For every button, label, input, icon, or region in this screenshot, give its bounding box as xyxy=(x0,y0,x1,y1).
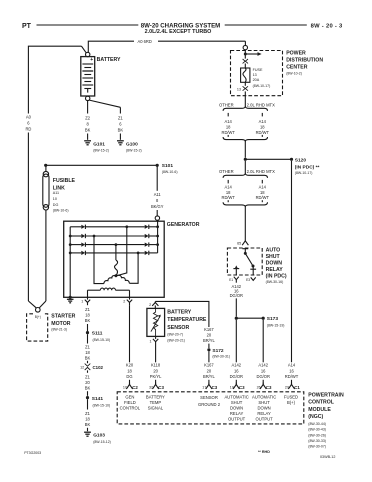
svg-text:17: 17 xyxy=(202,386,206,390)
split 2 OTHER / 2.0L RHD MTX xyxy=(219,161,275,238)
svg-text:(8W-10-2): (8W-10-2) xyxy=(286,71,302,75)
svg-text:GENERATOR: GENERATOR xyxy=(167,222,200,228)
PCM pin 17 C3 xyxy=(202,383,217,390)
svg-text:S141: S141 xyxy=(92,396,104,402)
svg-text:BR/YL: BR/YL xyxy=(203,338,216,343)
svg-text:A14: A14 xyxy=(225,119,233,124)
footnotes xyxy=(24,450,335,459)
svg-text:OTHER: OTHER xyxy=(219,169,234,174)
svg-text:16: 16 xyxy=(289,368,294,373)
splice S111 xyxy=(86,331,110,342)
wire A0 left: battery to starter xyxy=(25,46,86,301)
svg-text:SENSOR: SENSOR xyxy=(200,395,218,400)
svg-text:RELAY: RELAY xyxy=(257,411,271,416)
svg-text:8W - 20 - 3: 8W - 20 - 3 xyxy=(311,23,343,29)
relay pin E3 xyxy=(246,277,256,282)
wire Z1 gen pin1 to S111 xyxy=(85,307,91,331)
wire K20 gen pin2 to PCM xyxy=(126,305,134,384)
svg-text:BATTERY: BATTERY xyxy=(167,309,191,315)
PDC terminal xyxy=(243,45,247,49)
svg-text:C1: C1 xyxy=(294,385,300,390)
svg-text:STARTER: STARTER xyxy=(51,313,75,319)
wire A11 S101 to generator xyxy=(151,167,164,216)
svg-text:(NGC): (NGC) xyxy=(308,414,323,420)
generator stator windings xyxy=(93,225,140,283)
wire A142 S173 left branch to PCM xyxy=(230,320,243,384)
svg-text:PT: PT xyxy=(22,23,32,30)
wire sensor pin2 to K167 xyxy=(155,301,209,327)
splice S101 xyxy=(44,163,177,174)
split 1 OTHER / 2.0L RHD MTX xyxy=(219,96,275,158)
svg-text:+: + xyxy=(90,57,93,63)
svg-text:(8W-10-17): (8W-10-17) xyxy=(253,84,271,88)
svg-text:(8W-30-44): (8W-30-44) xyxy=(308,422,326,426)
PDC feed node and arrow xyxy=(244,50,262,59)
svg-text:BATTERY: BATTERY xyxy=(146,395,165,400)
svg-text:03WB-12: 03WB-12 xyxy=(320,455,335,459)
svg-text:MODULE: MODULE xyxy=(308,407,331,413)
svg-text:SHUT: SHUT xyxy=(266,254,281,260)
svg-text:13: 13 xyxy=(253,73,257,77)
wire Z2 battery to G101 xyxy=(85,101,91,140)
svg-text:BR/YL: BR/YL xyxy=(203,374,216,379)
svg-text:E1: E1 xyxy=(229,278,233,282)
svg-text:18: 18 xyxy=(85,417,90,422)
svg-text:16: 16 xyxy=(261,368,266,373)
svg-text:18: 18 xyxy=(226,125,231,130)
svg-text:BK: BK xyxy=(85,318,91,323)
generator case ground xyxy=(67,299,74,303)
svg-text:CENTER: CENTER xyxy=(286,65,308,71)
generator pin 1 xyxy=(81,297,90,305)
ground G103 xyxy=(84,432,111,444)
ASD relay connector pin 65 xyxy=(237,238,248,246)
svg-text:19: 19 xyxy=(230,386,234,390)
svg-text:FUSIBLE: FUSIBLE xyxy=(53,178,76,184)
wire Z1 S111 to C102 xyxy=(85,334,91,363)
svg-text:PK/YL: PK/YL xyxy=(150,374,162,379)
svg-text:SHUT: SHUT xyxy=(231,400,243,405)
header xyxy=(22,22,343,35)
svg-text:A0: A0 xyxy=(26,115,32,120)
svg-text:DG: DG xyxy=(126,374,132,379)
generator G xyxy=(64,216,200,297)
svg-text:Z1: Z1 xyxy=(118,116,124,121)
svg-text:(8W-21-3): (8W-21-3) xyxy=(51,328,67,332)
svg-text:20: 20 xyxy=(153,368,158,373)
svg-text:K167: K167 xyxy=(204,363,214,368)
svg-text:AUTOMATIC: AUTOMATIC xyxy=(252,395,276,400)
diodes D7 D8 row 4 xyxy=(70,252,81,254)
svg-text:C3: C3 xyxy=(212,385,218,390)
svg-text:BK: BK xyxy=(118,128,124,133)
svg-text:SENSOR: SENSOR xyxy=(167,325,189,331)
svg-text:TEMPERATURE: TEMPERATURE xyxy=(167,317,207,323)
svg-text:(8W-15-10): (8W-15-10) xyxy=(93,404,111,408)
svg-text:TEMP: TEMP xyxy=(150,400,162,405)
PCM pin 26 C3 xyxy=(257,383,272,390)
svg-text:RD/WT: RD/WT xyxy=(221,130,235,135)
svg-text:A142: A142 xyxy=(232,363,242,368)
starter motor box xyxy=(27,313,76,341)
svg-text:SIGNAL: SIGNAL xyxy=(148,406,164,411)
svg-text:K118: K118 xyxy=(151,363,161,368)
wire Z1 battery to G100 xyxy=(89,100,123,140)
powertrain control module box xyxy=(117,392,304,424)
sensor pin 1 xyxy=(149,336,158,344)
svg-text:Z1: Z1 xyxy=(85,307,91,312)
svg-text:DOWN: DOWN xyxy=(257,406,270,411)
svg-text:S111: S111 xyxy=(92,331,103,337)
svg-text:18: 18 xyxy=(260,190,265,195)
svg-text:18: 18 xyxy=(127,368,132,373)
svg-text:** RHD: ** RHD xyxy=(258,450,270,454)
svg-text:A0 6RD: A0 6RD xyxy=(138,39,152,44)
svg-text:(8W-30-07): (8W-30-07) xyxy=(308,445,326,449)
svg-text:10: 10 xyxy=(123,386,127,390)
svg-text:(IN PDC) **: (IN PDC) ** xyxy=(295,164,320,170)
svg-text:2.0L RHD MTX: 2.0L RHD MTX xyxy=(247,103,275,108)
fuse 13 connector top xyxy=(243,59,248,68)
svg-text:DISTRIBUTION: DISTRIBUTION xyxy=(286,58,323,64)
svg-text:CONTROL: CONTROL xyxy=(120,406,141,411)
svg-text:S101: S101 xyxy=(162,163,174,169)
generator field winding xyxy=(88,288,130,297)
svg-text:B(+): B(+) xyxy=(287,400,296,405)
svg-text:18: 18 xyxy=(85,350,90,355)
svg-text:(8W-30-16): (8W-30-16) xyxy=(266,280,284,284)
fuse F13 20A xyxy=(241,68,271,88)
PCM pin 32 C3 xyxy=(149,383,164,390)
svg-text:(8W-10-6): (8W-10-6) xyxy=(53,209,69,213)
svg-text:(8W-30-43): (8W-30-43) xyxy=(308,428,326,432)
svg-text:K20: K20 xyxy=(126,363,134,368)
battery B1 xyxy=(81,52,121,100)
diodes D1 D2 row 1 xyxy=(70,226,81,228)
svg-text:K167: K167 xyxy=(204,327,214,332)
wire A0 top: battery to PDC xyxy=(88,39,245,52)
ground G100 xyxy=(117,141,142,153)
svg-text:FUSED: FUSED xyxy=(284,395,298,400)
fuse 13 connector bottom, pin 13 xyxy=(237,82,248,95)
svg-text:(8W-15-12): (8W-15-12) xyxy=(93,440,111,444)
svg-text:12: 12 xyxy=(80,366,84,370)
svg-text:POWER: POWER xyxy=(286,51,306,57)
svg-text:RD: RD xyxy=(25,127,31,132)
svg-text:20A: 20A xyxy=(253,78,260,82)
wire K118 sensor to PCM xyxy=(150,345,162,384)
wire K167 labels upper xyxy=(203,327,216,348)
svg-text:A11: A11 xyxy=(154,192,162,197)
svg-text:18: 18 xyxy=(226,190,231,195)
svg-text:1: 1 xyxy=(149,339,151,343)
svg-text:BK: BK xyxy=(85,422,91,427)
svg-text:A14: A14 xyxy=(288,363,296,368)
svg-text:2.0L RHD MTX: 2.0L RHD MTX xyxy=(247,169,275,174)
PCM pin 29 C1 xyxy=(285,383,300,390)
relay pin E1 xyxy=(229,277,239,283)
svg-text:RD/WT: RD/WT xyxy=(221,195,235,200)
svg-text:SHUT: SHUT xyxy=(258,400,270,405)
svg-text:PT3G2003: PT3G2003 xyxy=(24,451,41,455)
svg-text:DG/OR: DG/OR xyxy=(230,374,243,379)
svg-text:(8W-10-17): (8W-10-17) xyxy=(295,171,313,175)
auto shut down relay box xyxy=(227,248,287,285)
svg-text:A11: A11 xyxy=(53,191,59,195)
svg-text:A142: A142 xyxy=(258,363,268,368)
svg-text:(8W-15-2): (8W-15-2) xyxy=(93,148,109,152)
relay switch contacts xyxy=(233,249,256,275)
svg-text:2: 2 xyxy=(149,303,151,307)
generator diode bridge xyxy=(70,225,157,256)
svg-text:DG: DG xyxy=(53,203,59,207)
svg-text:BATTERY: BATTERY xyxy=(97,57,121,63)
svg-text:(8W-30-31): (8W-30-31) xyxy=(212,354,230,358)
svg-text:G103: G103 xyxy=(93,433,105,439)
ground G101 xyxy=(84,141,109,153)
svg-text:C102: C102 xyxy=(93,365,104,370)
generator right bus to output terminal xyxy=(156,220,159,253)
wire K167 S172 to PCM xyxy=(203,351,216,383)
svg-text:C2: C2 xyxy=(132,385,138,390)
svg-text:C3: C3 xyxy=(266,385,272,390)
svg-text:(8W-15-19): (8W-15-19) xyxy=(267,323,285,327)
svg-text:GROUND 2: GROUND 2 xyxy=(198,402,221,407)
svg-text:CONTROL: CONTROL xyxy=(308,400,334,406)
svg-text:A14: A14 xyxy=(259,184,267,189)
svg-text:FIELD: FIELD xyxy=(124,400,136,405)
svg-text:Z1: Z1 xyxy=(85,375,91,380)
svg-text:BK: BK xyxy=(85,355,91,360)
fusible link A11 xyxy=(43,167,76,213)
sensor pin 2 xyxy=(149,301,158,308)
svg-text:RD/WT: RD/WT xyxy=(256,130,270,135)
svg-text:G100: G100 xyxy=(126,141,138,147)
svg-text:2.0L/2.4L EXCEPT TURBO: 2.0L/2.4L EXCEPT TURBO xyxy=(145,29,212,35)
svg-text:S172: S172 xyxy=(212,348,224,354)
svg-text:RD/WT: RD/WT xyxy=(256,195,270,200)
svg-text:AUTO: AUTO xyxy=(266,248,281,254)
PCM name block xyxy=(308,392,344,448)
svg-text:(8W-10-6): (8W-10-6) xyxy=(162,170,178,174)
svg-text:C3: C3 xyxy=(158,385,164,390)
svg-text:DG/OR: DG/OR xyxy=(256,374,269,379)
battery temperature sensor xyxy=(147,308,207,342)
svg-text:(8W-30-33): (8W-30-33) xyxy=(308,439,326,443)
svg-text:B(+): B(+) xyxy=(35,315,41,319)
svg-text:16: 16 xyxy=(234,368,239,373)
svg-text:29: 29 xyxy=(285,386,289,390)
wire A14 S120 to PCM xyxy=(285,161,299,384)
wire Z1 S141 to G103 xyxy=(85,399,91,431)
svg-text:BK/GY: BK/GY xyxy=(151,204,164,209)
svg-text:18: 18 xyxy=(85,312,90,317)
svg-text:S120: S120 xyxy=(295,157,307,163)
svg-text:20: 20 xyxy=(85,380,90,385)
svg-text:(8W-30-26): (8W-30-26) xyxy=(308,433,326,437)
svg-text:(IN PDC): (IN PDC) xyxy=(266,273,287,279)
svg-text:E3: E3 xyxy=(246,278,250,282)
svg-text:RELAY: RELAY xyxy=(266,267,284,273)
svg-text:OTHER: OTHER xyxy=(219,103,234,108)
svg-text:POWERTRAIN: POWERTRAIN xyxy=(308,392,344,398)
svg-text:DG/OR: DG/OR xyxy=(230,293,243,298)
connector C102 pin 12 xyxy=(80,364,103,373)
svg-text:BK: BK xyxy=(85,386,91,391)
svg-text:RELAY: RELAY xyxy=(230,411,244,416)
svg-text:1: 1 xyxy=(81,300,83,304)
wire A142 S173 right branch to PCM xyxy=(256,320,269,384)
svg-text:65: 65 xyxy=(237,242,241,246)
wire A142 relay to S173 xyxy=(230,284,243,316)
svg-text:26: 26 xyxy=(257,386,261,390)
svg-text:OUTPUT: OUTPUT xyxy=(255,417,273,422)
splice S141 xyxy=(86,396,110,408)
svg-text:18: 18 xyxy=(260,125,265,130)
svg-text:DOWN: DOWN xyxy=(266,261,283,267)
svg-text:BK: BK xyxy=(85,128,91,133)
wire Z1 C102 to S141 xyxy=(85,375,91,396)
diodes D5 D6 row 3 xyxy=(70,244,81,246)
splice S120 (IN PDC) xyxy=(244,157,320,175)
svg-text:G101: G101 xyxy=(93,141,105,147)
svg-text:AUTOMATIC: AUTOMATIC xyxy=(224,395,248,400)
svg-text:A14: A14 xyxy=(225,184,233,189)
svg-text:32: 32 xyxy=(149,386,153,390)
diodes D3 D4 row 2 xyxy=(70,235,81,237)
svg-text:Z1: Z1 xyxy=(85,344,91,349)
svg-text:MOTOR: MOTOR xyxy=(51,321,70,327)
svg-text:Z2: Z2 xyxy=(85,116,91,121)
svg-text:FUSE: FUSE xyxy=(253,68,263,72)
wire fusible link to starter xyxy=(45,210,47,301)
svg-text:OUTPUT: OUTPUT xyxy=(228,417,246,422)
splice S172 xyxy=(207,348,230,359)
svg-text:(8W-20-21): (8W-20-21) xyxy=(167,338,185,342)
svg-text:10: 10 xyxy=(53,197,57,201)
svg-text:RD/WT: RD/WT xyxy=(285,374,299,379)
svg-text:20: 20 xyxy=(207,333,212,338)
generator pin 2 xyxy=(123,297,132,305)
starter motor funnel and B+ terminal xyxy=(28,301,46,319)
PCM pin 10 C2 xyxy=(123,383,138,390)
splice S173 xyxy=(235,316,285,327)
power distribution center box xyxy=(231,51,324,96)
svg-text:(8W-20-7): (8W-20-7) xyxy=(167,332,183,336)
svg-text:GEN: GEN xyxy=(125,395,134,400)
svg-text:C3: C3 xyxy=(239,385,245,390)
generator left bus to case ground xyxy=(69,227,72,299)
svg-text:(8W-15-10): (8W-15-10) xyxy=(93,338,111,342)
svg-text:(8W-15-2): (8W-15-2) xyxy=(126,148,142,152)
svg-text:DOWN: DOWN xyxy=(230,406,243,411)
svg-text:13: 13 xyxy=(237,87,241,91)
svg-text:S173: S173 xyxy=(267,316,279,322)
svg-text:2: 2 xyxy=(123,300,125,304)
svg-text:A14: A14 xyxy=(259,119,267,124)
svg-text:Z1: Z1 xyxy=(85,411,91,416)
svg-text:20: 20 xyxy=(207,368,212,373)
PCM pin 19 C3 xyxy=(230,383,245,390)
